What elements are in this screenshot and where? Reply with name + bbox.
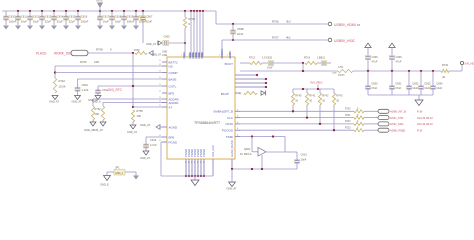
- svg-text:HSIC_SDA: HSIC_SDA: [390, 122, 404, 126]
- svg-text:10K: 10K: [137, 114, 142, 118]
- svg-text:R722: R722: [345, 121, 351, 123]
- svg-text:10uF: 10uF: [412, 86, 418, 90]
- svg-text:C613: C613: [150, 138, 157, 142]
- svg-text:AGND: AGND: [169, 125, 179, 129]
- svg-text:22uF: 22uF: [69, 19, 75, 23]
- svg-text:SMBALERT_B: SMBALERT_B: [213, 110, 233, 114]
- svg-text:BZX-A: BZX-A: [244, 152, 252, 156]
- svg-text:5V0_HD: 5V0_HD: [465, 62, 474, 66]
- svg-text:4.7uF: 4.7uF: [150, 143, 157, 147]
- svg-text:BASE: BASE: [169, 77, 177, 81]
- svg-text:10K: 10K: [95, 112, 100, 116]
- svg-text:DATA: DATA: [225, 122, 233, 126]
- svg-text:10nF: 10nF: [237, 32, 244, 36]
- svg-text:R714: R714: [304, 57, 311, 60]
- svg-text:3V3_REG: 3V3_REG: [310, 81, 323, 85]
- svg-text:USB5V_HSIC: USB5V_HSIC: [334, 39, 356, 43]
- svg-text:GND_1: GND_1: [115, 172, 124, 175]
- svg-text:6: 6: [237, 122, 238, 124]
- svg-text:C617: C617: [103, 14, 110, 18]
- svg-text:GND_AT: GND_AT: [227, 187, 237, 190]
- svg-text:C650: C650: [371, 82, 378, 86]
- svg-text:R709: R709: [80, 60, 87, 64]
- svg-text:BKUP: BKUP: [221, 92, 229, 96]
- svg-text:COMP: COMP: [169, 71, 178, 75]
- svg-text:3V3_RTC: 3V3_RTC: [108, 88, 123, 92]
- svg-text:6: 6: [237, 116, 238, 118]
- svg-text:10.0K: 10.0K: [59, 85, 66, 89]
- svg-text:GND_AT: GND_AT: [140, 123, 151, 127]
- svg-text:C610: C610: [9, 14, 16, 18]
- svg-text:C652: C652: [412, 82, 419, 86]
- svg-text:USB5V_HDMI: USB5V_HDMI: [334, 23, 356, 27]
- svg-text:R723: R723: [345, 127, 351, 129]
- svg-text:TIME: TIME: [226, 135, 233, 139]
- svg-text:47uF: 47uF: [395, 86, 401, 90]
- svg-text:AGND_DGND: AGND_DGND: [230, 140, 234, 157]
- svg-text:1.0nF: 1.0nF: [82, 88, 89, 92]
- svg-text:#14,30,38,40: #14,30,38,40: [417, 122, 433, 126]
- svg-text:6: 6: [237, 135, 238, 137]
- svg-text:24R: 24R: [94, 60, 99, 64]
- svg-text:GND: GND: [162, 52, 167, 54]
- svg-text:27mH: 27mH: [338, 74, 345, 77]
- svg-text:10uF: 10uF: [424, 86, 430, 90]
- svg-text:4k2: 4k2: [286, 36, 291, 40]
- svg-text:R712: R712: [249, 57, 256, 60]
- svg-text:C621: C621: [319, 57, 326, 60]
- svg-text:47uF: 47uF: [372, 60, 378, 64]
- svg-text:10uF: 10uF: [103, 19, 109, 23]
- svg-text:R,W: R,W: [417, 110, 423, 114]
- svg-text:GND_AT: GND_AT: [88, 98, 99, 102]
- svg-text:VSYS: VSYS: [96, 0, 103, 3]
- svg-text:A7: A7: [169, 105, 173, 109]
- svg-text:C612: C612: [33, 14, 40, 18]
- svg-text:C618: C618: [115, 14, 122, 18]
- svg-text:R750: R750: [137, 109, 144, 113]
- svg-text:R732: R732: [442, 64, 449, 67]
- svg-text:uR: uR: [442, 76, 445, 79]
- svg-text:C619: C619: [127, 14, 134, 18]
- svg-text:C613: C613: [45, 14, 52, 18]
- svg-text:1: 1: [192, 55, 193, 57]
- svg-text:C616: C616: [81, 14, 88, 18]
- svg-text:HDMI_P5(B): HDMI_P5(B): [390, 128, 405, 132]
- svg-text:R710: R710: [59, 79, 66, 83]
- svg-text:VINLDO: VINLDO: [220, 48, 224, 59]
- svg-text:10uF: 10uF: [33, 19, 39, 23]
- svg-text:GND_AT: GND_AT: [72, 101, 82, 104]
- svg-text:47uF: 47uF: [396, 60, 402, 64]
- svg-text:C615: C615: [301, 153, 308, 157]
- svg-text:R762: R762: [95, 107, 102, 111]
- svg-text:C620: C620: [266, 57, 273, 60]
- svg-text:47uF: 47uF: [371, 86, 377, 90]
- svg-text:C615: C615: [69, 14, 76, 18]
- svg-text:R,W: R,W: [417, 128, 423, 132]
- svg-text:R740: R740: [295, 94, 302, 98]
- svg-text:1: 1: [201, 55, 202, 57]
- svg-text:6: 6: [237, 128, 238, 130]
- svg-text:L701: L701: [338, 66, 344, 69]
- svg-text:1: 1: [188, 55, 189, 57]
- svg-text:PGOOD: PGOOD: [222, 129, 234, 133]
- svg-text:C654: C654: [436, 82, 443, 86]
- svg-text:10uF: 10uF: [21, 19, 27, 23]
- svg-text:10uF: 10uF: [115, 19, 121, 23]
- svg-text:C605: C605: [164, 36, 171, 39]
- svg-text:R743: R743: [336, 94, 343, 98]
- svg-text:10nF: 10nF: [146, 19, 152, 23]
- svg-text:BP8: BP8: [169, 135, 175, 139]
- svg-text:RGZ_GND: RGZ_GND: [212, 145, 215, 157]
- svg-text:C614: C614: [57, 14, 64, 18]
- svg-text:Q601: Q601: [244, 147, 251, 151]
- svg-text:GND_E: GND_E: [100, 184, 109, 187]
- svg-text:BP5: BP5: [169, 91, 175, 95]
- svg-text:22uF: 22uF: [45, 19, 51, 23]
- svg-text:1: 1: [181, 55, 182, 57]
- svg-text:JP1: JP1: [115, 166, 120, 170]
- svg-text:GND_AT: GND_AT: [152, 54, 162, 57]
- svg-text:1.5M: 1.5M: [332, 73, 337, 75]
- svg-text:HS: HS: [169, 64, 173, 68]
- svg-text:10uF: 10uF: [436, 86, 442, 90]
- svg-text:C611: C611: [21, 14, 28, 18]
- svg-text:WORK_DIS: WORK_DIS: [54, 52, 71, 56]
- svg-text:R707: R707: [272, 36, 279, 40]
- svg-text:GND_AT: GND_AT: [49, 101, 59, 104]
- svg-text:CNTL: CNTL: [169, 84, 177, 88]
- svg-text:PLACE: PLACE: [36, 52, 46, 56]
- svg-text:PGND: PGND: [169, 140, 179, 144]
- svg-text:1: 1: [198, 55, 199, 57]
- svg-text:C698: C698: [237, 27, 244, 31]
- svg-text:R721: R721: [345, 115, 351, 117]
- svg-text:VIN5V: VIN5V: [228, 51, 232, 59]
- svg-text:C653: C653: [424, 82, 431, 86]
- svg-text:R708: R708: [96, 48, 103, 52]
- svg-text:CLK: CLK: [227, 116, 233, 120]
- svg-text:HDMI_INT_B: HDMI_INT_B: [390, 110, 406, 114]
- svg-text:R706: R706: [272, 20, 279, 24]
- svg-text:BOUT: BOUT: [225, 62, 234, 66]
- svg-text:GND_AT: GND_AT: [140, 157, 150, 160]
- svg-text:GND_ABUS_AT: GND_ABUS_AT: [84, 128, 103, 132]
- svg-text:100nF: 100nF: [81, 19, 89, 23]
- svg-text:ADDR1: ADDR1: [169, 101, 180, 105]
- svg-text:TPS658640xRTT: TPS658640xRTT: [194, 121, 220, 125]
- svg-text:HSIC_STR: HSIC_STR: [390, 116, 403, 120]
- svg-text:22uF: 22uF: [57, 19, 63, 23]
- svg-text:GND_AT: GND_AT: [146, 43, 156, 46]
- svg-text:PGND: PGND: [202, 149, 206, 157]
- svg-text:R: R: [240, 93, 242, 96]
- svg-text:#14,30,38,40: #14,30,38,40: [417, 116, 433, 120]
- svg-text:GND_AT: GND_AT: [127, 131, 137, 134]
- svg-text:1: 1: [219, 55, 220, 57]
- svg-text:10nF: 10nF: [301, 158, 307, 162]
- svg-text:R738: R738: [134, 50, 140, 52]
- svg-text:C646: C646: [396, 55, 403, 59]
- svg-text:1: 1: [195, 55, 196, 57]
- svg-text:R705: R705: [189, 17, 196, 21]
- svg-text:6: 6: [237, 109, 238, 111]
- svg-text:C646: C646: [372, 55, 379, 59]
- svg-text:10nF: 10nF: [267, 67, 273, 70]
- svg-text:R741: R741: [309, 94, 316, 98]
- svg-text:C610: C610: [82, 83, 89, 87]
- svg-text:C607: C607: [146, 14, 153, 18]
- svg-text:3k3: 3k3: [286, 20, 291, 24]
- svg-text:C651: C651: [395, 82, 402, 86]
- svg-text:R720: R720: [345, 109, 351, 111]
- svg-text:1: 1: [227, 55, 228, 57]
- svg-text:R742: R742: [322, 94, 329, 98]
